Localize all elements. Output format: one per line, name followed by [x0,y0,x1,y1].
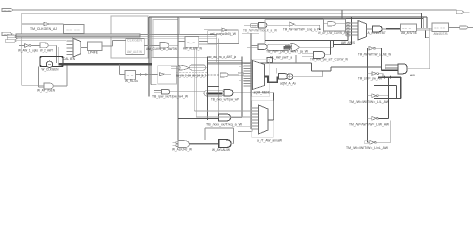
mux U_CAL [73,38,81,57]
gate G5 or [171,65,189,70]
svg-text:aQM_MENt: aQM_MENt [254,91,270,95]
label CAL_IEN [63,57,76,61]
label aQM_MEN [254,91,270,95]
svg-text:W_CLKGEN: W_CLKGEN [42,68,60,72]
bus band thick [16,34,140,37]
mux U_M4 [358,21,367,41]
label row1 top [208,55,236,59]
svg-text:TM_/W=/W/T/W=_L/L_AW: TM_/W=/W/T/W=_L/L_AW [349,100,390,104]
wire feedback vert [38,67,40,88]
box bottom edge y57 [151,56,208,58]
outer block top edge [22,12,422,14]
gate G12 [324,22,346,26]
wire W_RL out ticks [136,73,158,75]
vert x333.4 [332,41,334,48]
svg-text:AW_AYS/T/B: AW_AYS/T/B [401,31,417,35]
svg-text:TM_AW_pw_a/T_CLKW_W: TM_AW_pw_a/T_CLKW_W [310,57,349,61]
dark wire y98.6 [374,98,401,100]
long vertical x178 [177,17,179,141]
svg-text:aw_pw_2_aw_aw_pw_ja_2: aw_pw_2_aw_aw_pw_ja_2 [176,74,206,78]
gate W_AY_GEN [22,83,54,89]
wire y40.5 dark [265,40,348,42]
vert x296 [295,55,297,63]
svg-text:aw_aw_pw_a_AW7_ja: aw_aw_pw_a_AW7_ja [208,55,236,59]
svg-text:W_AY_L/W_CLKW_AW: W_AY_L/W_CLKW_AW [318,31,349,35]
buffer R5 [368,121,391,145]
wire vert pair [57,45,59,63]
svg-text:W_AW_1_upto: W_AW_1_upto [18,48,38,52]
box around mux1 [252,59,270,96]
second inner top edge [200,17,423,19]
label AW_CLKW [146,47,178,51]
wire y38 [17,37,217,39]
label W_AY_L dark [318,31,349,35]
svg-text:W_AYLAL/W: W_AYLAL/W [212,148,231,152]
bus tick segment [386,28,401,30]
gate U_CKAND [144,43,178,48]
label G17 dark [243,28,278,32]
vert x351.3 dark [350,17,352,45]
ladder y62.8 long [207,62,311,64]
inner block top edge dark [149,16,427,18]
ladder rungs [385,64,398,69]
svg-text:TB_/W=/W/T/xxLK_a_W: TB_/W=/W/T/xxLK_a_W [243,28,278,32]
label G9 [172,148,193,152]
wire G13 out [299,46,333,48]
svg-text:TM_/W=W/T/W_L/LNE_W: TM_/W=W/T/W_L/LNE_W [358,52,392,56]
gate G11 [278,74,288,80]
mux1 feed wires [239,66,251,80]
gate G8 dark [219,114,242,121]
gate G18 [247,44,267,50]
svg-text:W_ALKJ4J_W: W_ALKJ4J_W [172,148,193,152]
gate G10 dark [219,140,231,148]
vert x381.3 [380,48,382,70]
label G6 [152,95,189,99]
wire to K [417,28,433,30]
label ML_AW [270,55,292,59]
dark wire y85.5 [374,85,397,87]
label R5 [346,146,389,150]
svg-text:AW_CLKW_LL_AW7W: AW_CLKW_LL_AW7W [146,47,178,51]
label AW_AYS [401,31,417,35]
box W_AY_L [324,19,346,31]
outer block left edge [21,13,23,85]
mux2 feed wires [194,111,252,132]
svg-text:CAL IEN: CAL IEN [63,57,76,61]
input tag CLK3 [7,37,17,39]
wire G9-G10 [189,143,219,145]
small dark box x267 [267,58,273,63]
svg-text:xx xx: xx xx [434,27,445,29]
label clkgen b [127,50,143,54]
label mux2 [257,139,283,143]
svg-text:xx: xx [252,25,257,27]
svg-text:AW4S/T/B: AW4S/T/B [434,32,449,36]
box U_DIV [153,20,178,58]
label R4 [349,122,390,126]
input tag CLK4 [5,40,16,43]
vertical x250.9 [250,33,252,129]
wire G6 out [169,91,204,93]
label G10 [212,148,231,152]
gate W_2_AW7 [31,43,57,48]
thick mux1 out [265,77,278,83]
svg-text:aQM_A_Ax: aQM_A_Ax [280,82,296,86]
box W_RL [125,71,136,80]
vert x396.5 [396,86,398,99]
osc loop box [40,57,63,67]
vert x400.8 [400,77,402,98]
box W_CLKGEN_CORE [126,39,144,55]
small box counter [251,24,258,28]
gate G16 multi [398,64,407,74]
wire row1 [189,67,207,69]
wire top clk net [13,9,456,11]
box K [432,23,449,32]
oscillator circle [46,61,52,67]
vertical dark x207 [206,57,208,121]
svg-text:AW_ALE W: AW_ALE W [127,50,143,54]
label B7 [283,28,320,32]
svg-text:x x: x x [127,75,134,77]
dark rung [381,69,398,71]
svg-text:W_RL/Ju: W_RL/Ju [125,79,138,83]
gate G7 dark [224,90,233,96]
svg-text:TB_/xxx_xx/T/xq_a_W: TB_/xxx_xx/T/xq_a_W [206,123,243,127]
mux4 pin marks [345,22,358,36]
bus thin lines [140,35,217,37]
label G7 [211,97,240,101]
wire K out [449,27,460,29]
box AW_ALE [178,37,199,48]
wire band-W_RL [120,65,126,75]
pill row2 [267,44,291,50]
svg-text:CLKGEN: CLKGEN [127,39,143,43]
label LP4FE [88,50,99,54]
label R3 [349,100,390,104]
svg-text:xx xx: xx xx [66,30,80,32]
label TM_CLKGEN_AJ [30,27,57,31]
xor circle [287,74,293,80]
mux1 rung wires [244,64,253,87]
label mux4 [368,31,386,35]
svg-text:xx x: xx x [402,28,411,30]
line under label [242,32,259,34]
buffer U_RB [160,73,171,76]
wire y118 dark [178,118,219,120]
gate G14 [302,51,325,58]
label W_AW_1_upto [18,48,38,52]
svg-text:TM_CLKGEN_AJ: TM_CLKGEN_AJ [30,27,57,31]
pill row3 [204,91,224,96]
label W_2_AW7 [40,48,53,52]
label clkgen a [127,39,143,43]
label wd_pe [210,32,237,36]
output port tag top right [456,11,469,14]
input port tag TB_CLK [2,9,13,12]
buffer R3 [368,94,389,98]
output tag right [460,26,473,29]
label aQM_A [280,82,296,86]
box U_SYNC [64,25,85,34]
mux2 rung wires [251,108,259,129]
wire drop right x423 [422,17,424,28]
svg-text:LP4FE: LP4FE [88,50,99,54]
svg-text:TM_/W=/W/T/W=_L/W_AW: TM_/W=/W/T/W=_L/W_AW [349,122,390,126]
pill row1 [190,65,206,70]
buffer B7 [289,22,320,26]
gate G13 [285,43,299,51]
gate row2 small [207,73,238,77]
tick bus y77 [378,76,401,79]
wire G7 out [233,93,274,120]
vertical pair x194 [194,44,196,118]
wire drop x341 [341,10,343,19]
label G8 [206,123,243,127]
thick clock band [59,63,153,66]
junction drop [319,25,321,30]
input tag CLK2 [7,35,16,38]
ladder y64.3 [207,63,242,65]
wire from above [276,68,278,74]
wire ay out [53,66,67,86]
dashed row a [176,72,207,74]
vertical dark x241 [241,57,243,118]
dark wire y67 [331,66,381,68]
svg-text:TM_/W=/W/T/W=_L/xq_a_P: TM_/W=/W/T/W=_L/xq_a_P [283,28,320,32]
label W_RL_Ju [125,79,138,83]
label TM_AW dark [310,57,349,61]
label K [434,32,449,36]
gate W_AW inv [19,44,31,48]
pill row3 dark core [207,92,223,94]
svg-text:a_/T_AW_arnaW: a_/T_AW_arnaW [257,139,283,143]
box U_CLKRST [111,16,148,58]
label AW small [410,74,415,77]
buffer R4 [368,117,389,121]
small box R5 [365,141,368,144]
svg-text:AW: AW [410,74,415,77]
wire G16 out loop [407,28,430,69]
dashed row b [176,74,207,76]
vert x388.4 [387,77,389,118]
inner box3 corner [265,20,324,44]
svg-text:x_x: x_x [187,42,195,44]
mux U_QM2 [259,105,269,134]
long vertical right col [367,48,369,142]
svg-text:xx: xx [3,10,11,12]
gate G9 nand [173,141,190,148]
dark elbow net [312,63,332,77]
mux U_CAL stubs [67,41,74,55]
inner block left edge dark [148,17,150,97]
buffer wd_pe [204,28,239,31]
mux U_QM1 [253,61,265,90]
inner second vertical [151,17,156,85]
wire xor out [293,76,323,78]
svg-text:TM_/W=/W/T/W=_L/xL_AW: TM_/W=/W/T/W=_L/xL_AW [346,146,389,150]
wire lp4e-clkgen [102,41,126,47]
wire y86 dark [207,86,218,88]
box buffer carrier [158,66,177,84]
label R2 [358,76,383,80]
gate G15 [367,26,387,32]
mark row2 [238,72,243,75]
gate G6 [154,89,170,94]
box around mux2 [252,101,274,138]
svg-text:wd_pw(w4b0)_W: wd_pw(w4b0)_W [210,32,237,36]
wire drop right x421 [421,13,423,28]
buffer R1 [369,46,381,50]
label row2 [266,50,309,54]
label W_CLKGEN [42,68,60,72]
wire G14 out [324,41,330,55]
svg-text:AW_ALE/B_W: AW_ALE/B_W [183,47,203,51]
wire ALE out [199,42,217,45]
label W_AY_GEN [37,89,56,93]
wire drop right x426 [426,17,428,28]
label rowa [176,74,206,78]
gate G17 [244,22,289,28]
wire y44.3 [333,43,351,45]
svg-text:TB_/xxx_w/T/pw_wP: TB_/xxx_w/T/pw_wP [211,97,240,101]
svg-text:TB_/W=_pw_a_AW7_ja_W: TB_/W=_pw_a_AW7_ja_W [266,50,309,54]
box wd_pe [208,31,239,44]
svg-text:AW_AW/S: AW_AW/S [341,41,356,45]
dark corner x425 [426,30,429,38]
label R1 [358,52,392,56]
feedback loop wires [205,128,234,144]
vertical x179 light [179,17,181,35]
label AW_ALE [183,47,203,51]
buffer R2 [368,72,384,77]
svg-text:TB_/pw_xx/T/pw_w4_W: TB_/pw_xx/T/pw_w4_W [152,95,189,99]
vertical x218 [218,38,220,118]
wire mux cal out [81,47,88,49]
vert x347.8 [347,31,349,41]
wire mux2 out [268,119,274,121]
svg-text:ML_AW_pw/T_a: ML_AW_pw/T_a [270,55,292,59]
label mux4b [341,41,356,45]
box AW_AYS [401,24,417,31]
buffer U_BUF1 [22,22,64,25]
wire y40 tag4 [17,40,67,42]
ladder y60 [207,59,242,61]
svg-text:W_2_AW7: W_2_AW7 [40,48,53,52]
vertical x216 [216,36,218,62]
svg-text:W_AY_/GEN: W_AY_/GEN [37,89,56,93]
box LP4E [88,42,103,51]
input tag CLK1 [2,32,12,36]
